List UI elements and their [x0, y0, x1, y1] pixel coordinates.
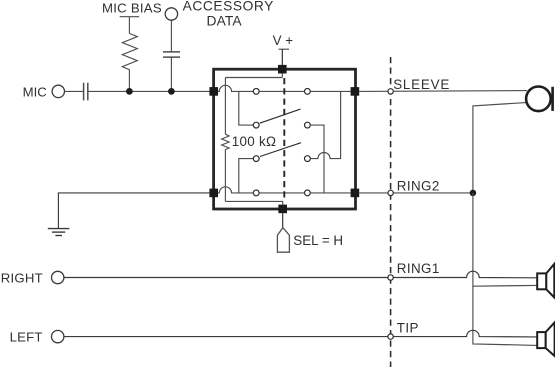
- wire SEL pin to flag: [282, 213, 284, 228]
- wire speaker return column: [473, 193, 537, 286]
- contact circle switch2 pole: [253, 156, 259, 162]
- flag symbol SEL input: [277, 228, 289, 253]
- junction dot MIC/ACCESSORY: [168, 88, 175, 95]
- svg-text:V +: V +: [273, 33, 294, 48]
- pin GND (left bottom): [209, 189, 218, 198]
- wire GND row inside box with hop: [218, 187, 253, 193]
- contact circle bottom-right: [305, 190, 311, 196]
- wire speaker return to speaker2: [473, 286, 537, 345]
- wire accessory terminal to capacitor: [170, 20, 172, 51]
- svg-text:RIGHT: RIGHT: [1, 271, 43, 286]
- svg-text:TIP: TIP: [397, 321, 419, 336]
- wire branch to switch1 pole: [239, 91, 253, 125]
- wire GND row to ground: [58, 193, 209, 228]
- wire MIC row between contacts: [259, 90, 304, 92]
- capacitor C-mic (series, vertical plates): [83, 83, 85, 101]
- pin V+ (top): [278, 65, 287, 74]
- terminal LEFT: [52, 330, 64, 342]
- wire resistor to MIC line: [128, 70, 130, 92]
- wire MIC row inside box with hop: [218, 85, 253, 91]
- wire inner bottom rail to SEL pin: [225, 201, 282, 204]
- wire MIC BIAS tick to resistor: [128, 17, 130, 34]
- wire 100k to SEL rail: [224, 150, 226, 202]
- svg-text:RING2: RING2: [397, 179, 440, 194]
- switch arm S2 (open): [260, 143, 301, 157]
- junction dot MIC/MICBIAS: [126, 88, 133, 95]
- junction dot RING2/speaker return: [470, 190, 477, 197]
- switch arm S1 (open): [260, 109, 301, 123]
- wire V+ pin to inner rail: [281, 73, 283, 78]
- svg-text:SEL = H: SEL = H: [293, 233, 343, 248]
- op IC box U1 (thick outline): [214, 69, 356, 209]
- headset microphone symbol: [526, 87, 551, 112]
- wire switch2 throw to SLEEVE row with hop: [311, 91, 341, 158]
- jack contact TIP: [388, 334, 393, 339]
- wire RING2 row to junction: [359, 192, 473, 194]
- dashed control line from SEL: [283, 78, 285, 200]
- MIC BIAS rail tick: [120, 16, 139, 18]
- speaker left (TIP): [537, 322, 554, 356]
- svg-text:ACCESSORY: ACCESSORY: [183, 0, 274, 14]
- speaker right (RING1): [537, 264, 554, 298]
- contact circle switch1 pole: [253, 122, 259, 128]
- V+ rail tick: [279, 48, 289, 50]
- wire V+ to box pin: [281, 49, 283, 65]
- capacitor C-acc (horizontal plates): [163, 51, 180, 53]
- wire capacitor to box pin (MIC row): [89, 90, 211, 92]
- wire GND row between contacts: [259, 192, 304, 194]
- svg-text:LEFT: LEFT: [10, 330, 43, 345]
- svg-text:100 kΩ: 100 kΩ: [232, 134, 277, 149]
- svg-text:RING1: RING1: [397, 261, 440, 276]
- ground symbol: [48, 228, 70, 230]
- wire inner left column (V+ to 100k): [224, 78, 226, 135]
- dashed jack plane: [390, 57, 392, 367]
- wire LEFT to TIP with hop: [64, 330, 537, 337]
- contact circle switch1 throw: [305, 122, 311, 128]
- terminal ACCESSORY DATA: [165, 8, 177, 20]
- contact circle bottom-left: [253, 190, 259, 196]
- wire inner top rail: [225, 77, 282, 79]
- wire branch to switch2 pole: [239, 159, 253, 193]
- wire MIC terminal to capacitor: [65, 90, 84, 92]
- svg-text:MIC BIAS: MIC BIAS: [102, 1, 162, 16]
- wire MIC row contact2 to sleeve pin: [311, 90, 351, 92]
- wire GND row contact to ring2 pin: [311, 192, 351, 194]
- resistor R-100k: [222, 134, 229, 149]
- wire headset mic lower lead: [473, 102, 530, 193]
- wire capacitor to MIC line: [170, 57, 172, 91]
- pin SLEEVE (right top): [351, 87, 360, 96]
- jack contact RING2: [388, 190, 393, 195]
- wire switch1 throw to GND row: [311, 125, 324, 193]
- pin SEL (bottom): [278, 205, 287, 214]
- jack contact SLEEVE: [388, 89, 393, 94]
- svg-text:DATA: DATA: [207, 13, 243, 28]
- contact circle top-left: [253, 89, 259, 95]
- terminal RIGHT: [52, 271, 64, 283]
- jack contact RING1: [388, 275, 393, 280]
- terminal MIC: [52, 85, 64, 97]
- wire RIGHT to RING1 with hop: [64, 271, 537, 278]
- pin RING2 (right bottom): [351, 189, 360, 198]
- contact circle switch2 throw: [305, 156, 311, 162]
- svg-text:SLEEVE: SLEEVE: [393, 77, 450, 92]
- resistor R-micbias: [122, 33, 137, 69]
- pin MIC (left top): [209, 87, 218, 96]
- wire SLEEVE row to headset mic: [359, 90, 527, 93]
- contact circle top-right: [305, 89, 311, 95]
- svg-text:MIC: MIC: [23, 85, 48, 100]
